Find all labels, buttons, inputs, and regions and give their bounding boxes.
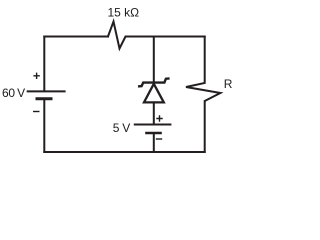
svg-text:R: R [224, 77, 233, 91]
svg-text:15 kΩ: 15 kΩ [108, 6, 140, 20]
svg-text:5 V: 5 V [113, 121, 131, 135]
svg-text:60 V: 60 V [2, 86, 25, 100]
